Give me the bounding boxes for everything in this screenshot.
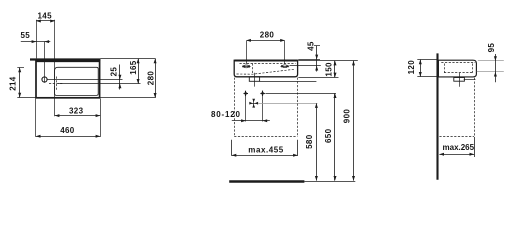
svg-text:580: 580	[305, 134, 314, 149]
basin left wall dashed	[252, 63, 254, 74]
ext 323 left / drain	[54, 86, 56, 116]
svg-text:280: 280	[260, 31, 275, 40]
bolt cross right	[260, 91, 265, 96]
basin outer rect	[36, 61, 100, 98]
basin inner rect	[55, 67, 99, 95]
basin side profile	[438, 60, 476, 77]
trap centreline	[459, 73, 461, 87]
svg-text:120: 120	[407, 60, 416, 75]
basin centreline to right dims	[58, 83, 141, 85]
dim 580	[316, 103, 318, 180]
dashed envelope right	[297, 78, 299, 137]
max455 end ticks	[231, 140, 233, 156]
wall line (thick back edge)	[30, 58, 101, 60]
inner basin dashed	[441, 62, 475, 64]
svg-text:max.455: max.455	[248, 145, 283, 154]
dim 145	[36, 20, 55, 22]
dim 80-120	[232, 120, 270, 122]
ext 145 right / drain	[54, 20, 56, 81]
svg-text:900: 900	[343, 109, 352, 124]
ext 460 left	[35, 99, 37, 137]
tap hole line to right dims	[47, 79, 122, 81]
svg-text:25: 25	[110, 67, 119, 77]
dim 25	[119, 65, 121, 90]
outlet centreline	[254, 73, 256, 87]
dim 280 plan	[155, 59, 157, 98]
svg-text:80-120: 80-120	[211, 110, 241, 119]
dim 95	[495, 54, 497, 82]
dashed envelope left	[234, 78, 236, 137]
right ext y60.8	[298, 60, 358, 62]
mounting hole right	[281, 65, 290, 68]
svg-text:max.265: max.265	[443, 143, 475, 152]
right ext y65.9 from hole	[290, 65, 321, 67]
ext 95 top gray	[478, 60, 504, 62]
dim 900	[353, 61, 355, 181]
dim max.265	[439, 154, 474, 156]
svg-text:145: 145	[38, 11, 53, 20]
svg-text:323: 323	[69, 106, 84, 115]
svg-text:165: 165	[129, 60, 138, 75]
wall vertical thick	[436, 53, 438, 179]
dim 214	[19, 68, 21, 98]
outlet box	[249, 77, 259, 81]
basin body front	[234, 60, 297, 77]
tick 45 top	[314, 45, 320, 47]
dashed projection horizontal	[439, 136, 474, 138]
tick 214 top	[17, 67, 24, 69]
right ext y77.2 bottom	[298, 77, 338, 79]
max265 end tick	[474, 137, 476, 157]
580 top ext gray	[258, 103, 317, 105]
svg-text:650: 650	[324, 128, 333, 143]
outlet bottom ext	[260, 81, 317, 83]
ext 120 top	[417, 59, 437, 61]
svg-text:95: 95	[487, 43, 496, 53]
drain connection symbol	[249, 99, 258, 108]
trap box	[454, 78, 465, 82]
dim 323	[55, 115, 100, 117]
drain crosshair dashed	[49, 83, 64, 85]
interior slope dashed	[237, 69, 295, 74]
rim dashed line	[240, 63, 296, 65]
tap hole circle	[42, 77, 47, 82]
bolt cross left	[244, 91, 249, 96]
svg-text:280: 280	[146, 71, 155, 86]
bottom ext line to right dims	[100, 97, 156, 99]
top edge thicker	[235, 60, 298, 62]
floor line thick	[229, 180, 304, 183]
dim 150	[334, 61, 336, 77]
ext 120 bottom	[417, 76, 439, 78]
dim 45	[316, 46, 318, 72]
dim 165	[138, 59, 140, 84]
650 top ext	[265, 93, 336, 95]
dim 280 front	[246, 40, 284, 42]
dim 460	[36, 136, 100, 138]
bolt ext verticals	[245, 96, 247, 122]
ext 55 / tap hole	[44, 42, 46, 83]
svg-text:214: 214	[8, 76, 17, 91]
dashed envelope bottom	[234, 136, 297, 138]
ext 95 bottom gray	[477, 71, 504, 73]
dim 650	[334, 93, 336, 180]
floor ext thin	[304, 181, 355, 183]
dashed projection vertical	[474, 78, 476, 137]
right ext y59.2	[298, 59, 320, 61]
dim 55	[21, 41, 51, 43]
top ext line to right dims	[101, 58, 156, 60]
dim max.455	[232, 155, 298, 157]
mounting hole left	[242, 65, 251, 68]
svg-text:45: 45	[306, 41, 315, 51]
ext 214 bottom	[17, 97, 36, 99]
ext 280 right	[284, 41, 286, 64]
ext right edge shared 323/460	[100, 99, 102, 137]
dim 120	[420, 60, 422, 77]
ext 280 left	[246, 41, 248, 64]
trap right ext	[464, 79, 476, 81]
svg-text:150: 150	[325, 62, 334, 77]
ext 145 left / sink edge	[36, 20, 38, 59]
svg-text:460: 460	[60, 126, 75, 135]
svg-text:55: 55	[21, 31, 31, 40]
